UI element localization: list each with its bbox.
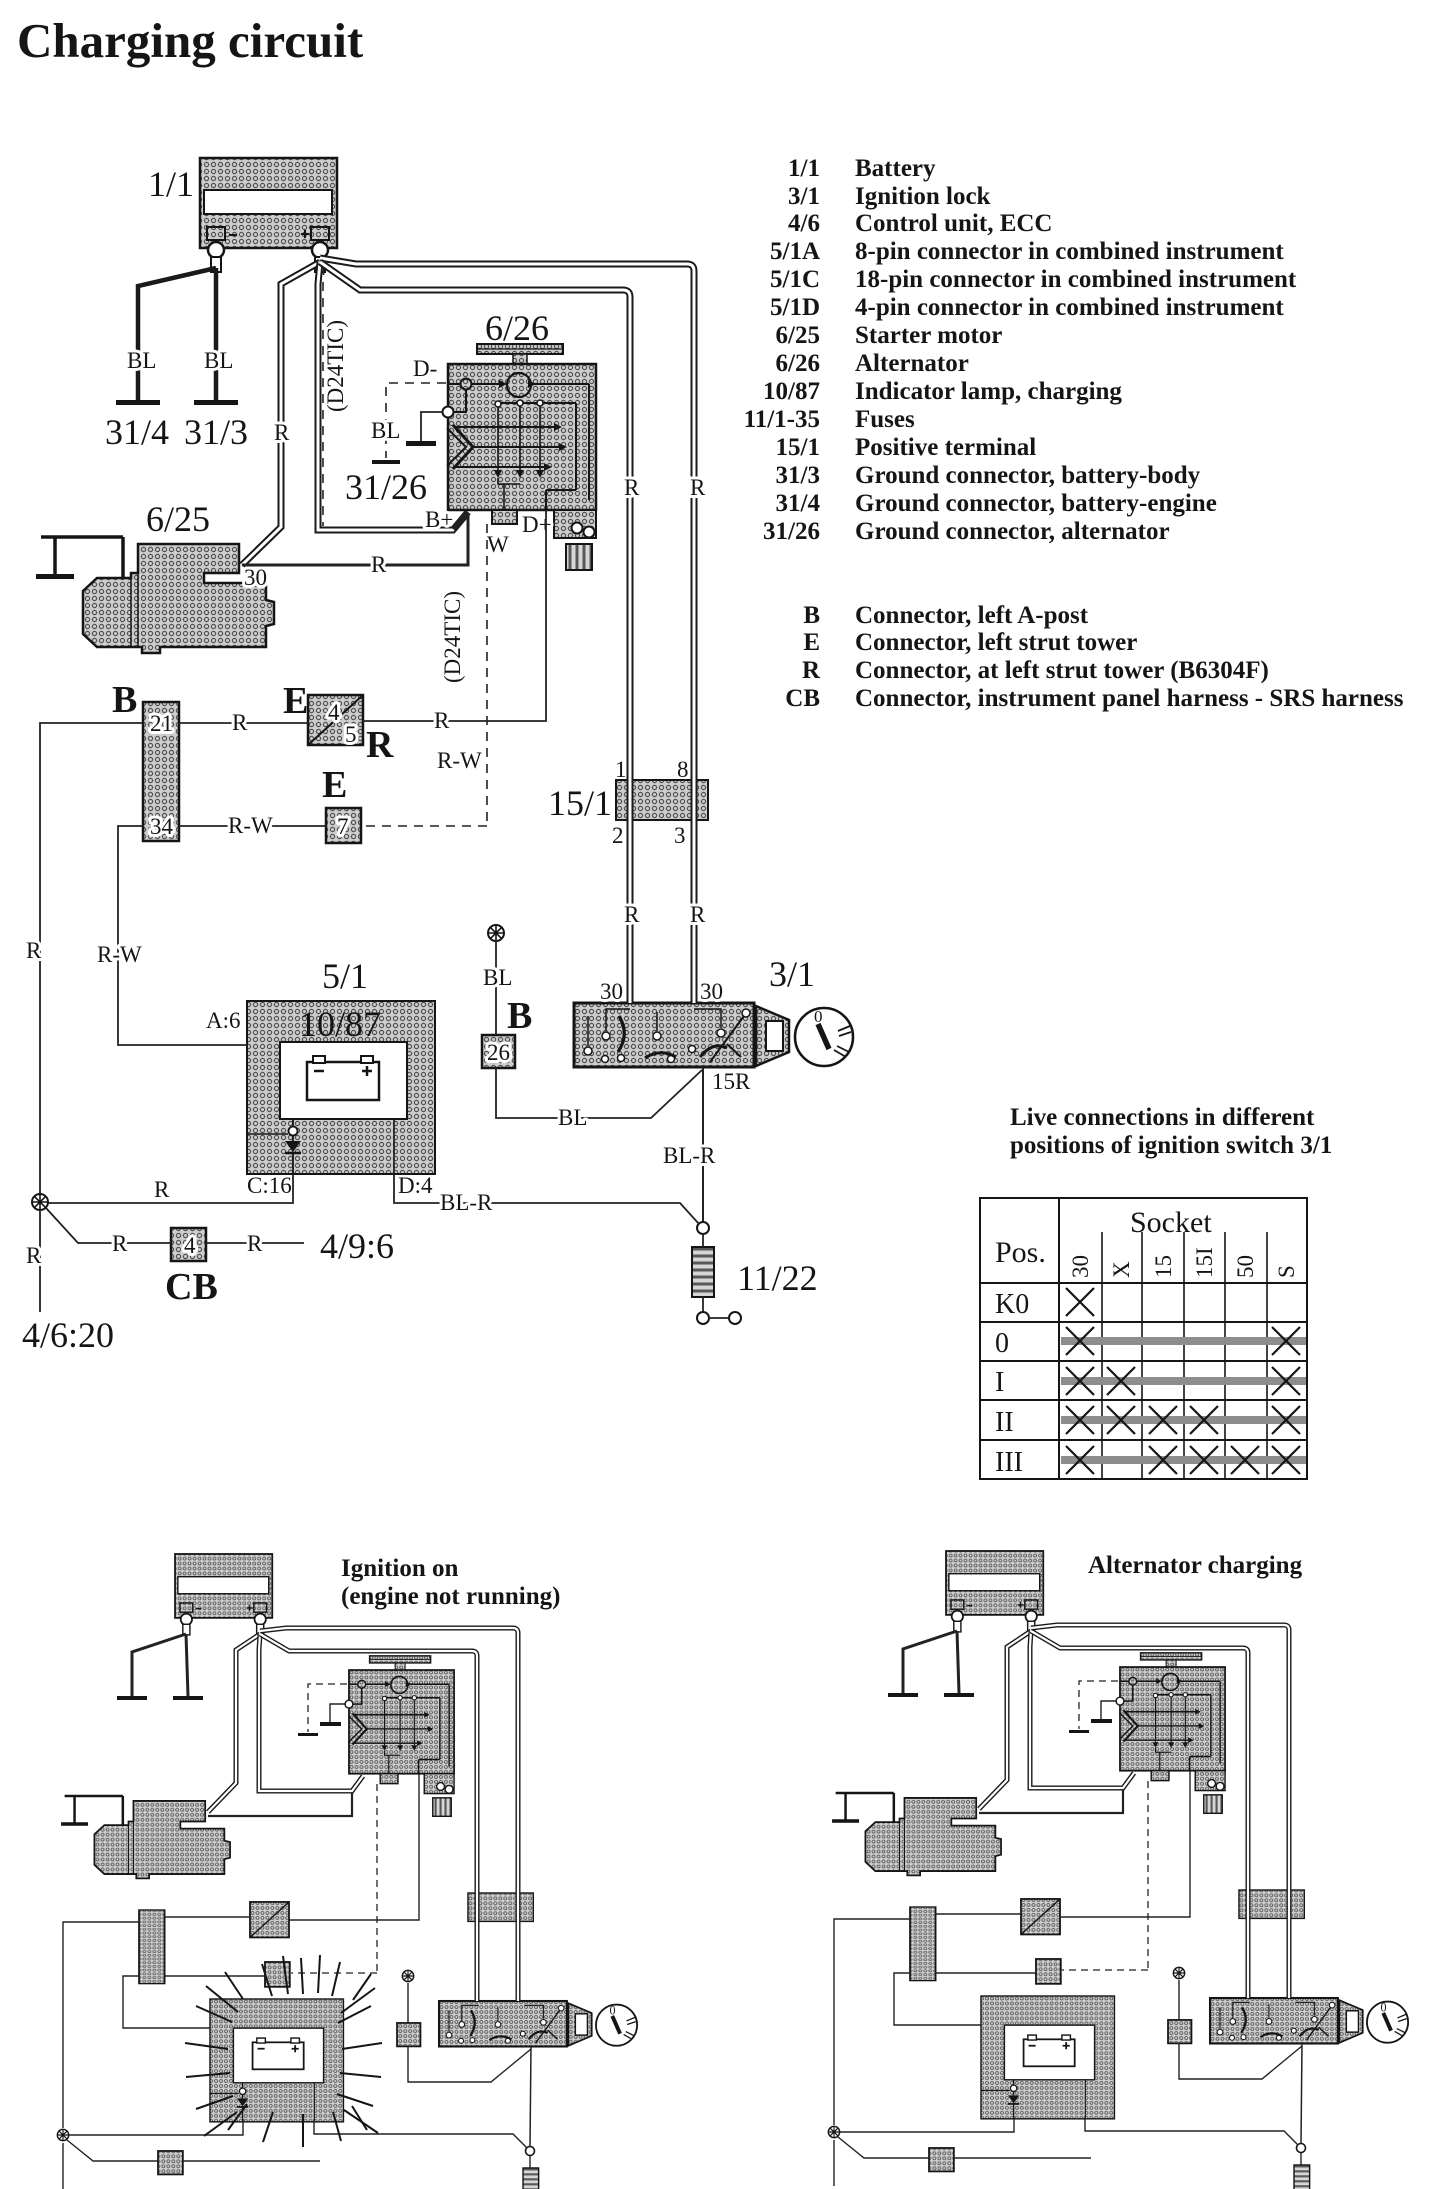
svg-text:1/1: 1/1 [148, 164, 194, 204]
svg-text:S: S [1274, 1265, 1299, 1278]
mini wire C16 to node [69, 2119, 243, 2135]
wire dashed W to connector E7 [363, 524, 487, 826]
svg-text:1/1: 1/1 [788, 155, 820, 182]
mini starter [61, 1796, 230, 1878]
ground bar BL alternator [406, 441, 436, 446]
svg-text:30: 30 [244, 565, 267, 590]
svg-text:(D24TIC): (D24TIC) [323, 320, 348, 412]
connector CB box [171, 1228, 206, 1261]
wire B21 left down to node [40, 723, 143, 1202]
mini wire starter to B+ [208, 1793, 352, 1816]
svg-text:0: 0 [814, 1007, 823, 1026]
svg-text:5/1D: 5/1D [770, 294, 820, 321]
svg-text:7: 7 [337, 814, 349, 839]
svg-text:R: R [247, 1231, 263, 1256]
ignition switch position table [980, 1198, 1307, 1479]
mini battery [175, 1554, 272, 1635]
svg-text:30: 30 [1068, 1255, 1093, 1278]
fuse 11/22 [692, 1247, 714, 1297]
svg-text:18-pin connector in combined i: 18-pin connector in combined instrument [855, 266, 1297, 293]
mini wire D+ to E45 [289, 1774, 419, 1920]
mini wire CB right [182, 2160, 320, 2162]
svg-text:BL-R: BL-R [440, 1190, 493, 1215]
svg-text:BL: BL [371, 418, 400, 443]
svg-text:3: 3 [674, 823, 686, 848]
svg-text:I: I [995, 1367, 1004, 1398]
wire BL battery negative to ground 31/4 [138, 268, 216, 400]
svg-text:(engine not running): (engine not running) [341, 1583, 560, 1610]
svg-text:R: R [112, 1231, 128, 1256]
mini dashed W to E7 [291, 1784, 377, 1973]
svg-text:BL-R: BL-R [663, 1143, 716, 1168]
connector B 26 [482, 1035, 515, 1068]
mini diagram ignition-on core [57, 1554, 637, 2189]
svg-text:E: E [322, 764, 347, 806]
wire BL battery negative to ground 31/3 [214, 268, 219, 400]
svg-text:0: 0 [995, 1328, 1009, 1359]
svg-text:Charging circuit: Charging circuit [17, 13, 364, 68]
wire battery positive to alternator B+ loop [318, 262, 468, 530]
svg-text:Indicator lamp, charging: Indicator lamp, charging [855, 378, 1122, 405]
svg-text:C:16: C:16 [247, 1173, 292, 1198]
svg-text:11/1-35: 11/1-35 [744, 406, 820, 433]
connector B (left A-post) [143, 702, 179, 841]
wire R top run to right vertical 1 [320, 258, 694, 1003]
svg-text:2: 2 [612, 823, 624, 848]
mini wire node down [62, 2143, 64, 2189]
svg-text:Connector, left strut tower: Connector, left strut tower [855, 629, 1137, 656]
svg-text:Battery: Battery [855, 155, 936, 182]
wire node down to 4/6:20 [39, 1210, 41, 1312]
svg-text:B: B [803, 602, 820, 629]
svg-text:BL: BL [127, 348, 156, 373]
mini diagram alternator charging [828, 1551, 1408, 2189]
wire BL-R instrument D:4 to node [394, 1174, 699, 1224]
mini dashed D- ground [308, 1684, 347, 1732]
svg-text:R: R [274, 420, 290, 445]
wire R instrument C:16 to node [40, 1174, 293, 1203]
svg-text:R: R [690, 902, 706, 927]
svg-text:31/3: 31/3 [776, 462, 820, 489]
mini alternator [345, 1656, 454, 1816]
svg-text:D+: D+ [522, 512, 552, 537]
mini lamp [402, 1970, 413, 1981]
svg-text:B+: B+ [425, 507, 453, 532]
svg-text:III: III [995, 1447, 1023, 1478]
mini B26 [397, 2023, 420, 2046]
svg-text:Ignition lock: Ignition lock [855, 183, 991, 210]
svg-text:4: 4 [328, 700, 340, 725]
svg-text:Connector, left A-post: Connector, left A-post [855, 602, 1089, 629]
svg-text:30: 30 [600, 979, 623, 1004]
svg-text:D-: D- [413, 356, 437, 381]
svg-text:30: 30 [700, 979, 723, 1004]
mini connector B [139, 1910, 165, 1984]
mini instrument 5/1 [210, 1999, 343, 2122]
mini wire battery negative grounds [132, 1634, 186, 1696]
svg-text:R: R [624, 475, 640, 500]
svg-text:31/4: 31/4 [105, 412, 169, 452]
alternator 6/26 [443, 344, 597, 570]
svg-text:5: 5 [345, 722, 357, 747]
wire CB to 4/9:6 [206, 1242, 304, 1244]
svg-text:3/1: 3/1 [788, 183, 820, 210]
X marks [1066, 1288, 1300, 1474]
svg-text:R: R [371, 552, 387, 577]
svg-text:R-W: R-W [97, 942, 142, 967]
mini CB [158, 2151, 183, 2174]
svg-text:15R: 15R [712, 1069, 751, 1094]
svg-text:Ground connector, battery-engi: Ground connector, battery-engine [855, 490, 1217, 517]
svg-text:6/25: 6/25 [776, 322, 820, 349]
node 4/6:20 sunburst [32, 1194, 48, 1210]
svg-text:R: R [434, 708, 450, 733]
mini fuse [523, 2168, 539, 2189]
svg-text:R: R [154, 1177, 170, 1202]
svg-text:A:6: A:6 [206, 1008, 241, 1033]
svg-text:31/3: 31/3 [184, 412, 248, 452]
svg-text:4: 4 [184, 1233, 196, 1258]
svg-text:R: R [802, 657, 821, 684]
svg-text:31/26: 31/26 [345, 467, 427, 507]
svg-text:K0: K0 [995, 1289, 1029, 1320]
svg-text:5/1C: 5/1C [770, 266, 820, 293]
svg-text:B: B [112, 679, 137, 721]
wire dashed D24TIC battery positive [323, 266, 324, 526]
mini wire lamp to B26 [407, 1983, 409, 2023]
svg-text:CB: CB [785, 685, 820, 712]
svg-text:E: E [283, 680, 308, 722]
legend component list [744, 155, 1404, 712]
fuse bottom circles [697, 1312, 709, 1324]
positive terminal 15/1 [616, 780, 708, 820]
ignition switch 3/1 [574, 1003, 853, 1067]
wire B+ stub [453, 512, 468, 529]
svg-text:R: R [26, 1243, 42, 1268]
mini wire B34 to A:6 [123, 1976, 210, 2028]
svg-text:W: W [487, 532, 509, 557]
mini 15/1 [468, 1893, 533, 1921]
svg-text:15/1: 15/1 [776, 434, 820, 461]
svg-text:R: R [366, 724, 394, 766]
connector E 7 [326, 808, 361, 843]
svg-text:8: 8 [677, 757, 689, 782]
svg-text:D:4: D:4 [398, 1173, 433, 1198]
sunburst rays around lit lamp box [185, 1955, 382, 2147]
svg-text:1: 1 [615, 757, 627, 782]
svg-text:15: 15 [1151, 1255, 1176, 1278]
wire BL lamp to B26 [495, 941, 497, 1035]
svg-text:II: II [995, 1407, 1014, 1438]
svg-text:Starter motor: Starter motor [855, 322, 1002, 349]
svg-text:8-pin connector in combined in: 8-pin connector in combined instrument [855, 238, 1284, 265]
ground connector 31/3 [194, 400, 238, 405]
svg-text:Positive terminal: Positive terminal [855, 434, 1036, 461]
connector E 4/5 [308, 695, 363, 745]
wire BL-R 15R down to node [702, 1067, 704, 1222]
svg-text:11/22: 11/22 [737, 1258, 818, 1298]
mini wire loop to B+ [259, 1634, 363, 1791]
mini wire BL-R horizontal [314, 2119, 527, 2148]
svg-text:Live connections in different: Live connections in different [1010, 1104, 1315, 1131]
svg-text:5/1: 5/1 [322, 956, 368, 996]
wire R battery positive to starter 30 [242, 262, 320, 565]
svg-text:21: 21 [150, 711, 173, 736]
svg-text:Connector, at left strut tower: Connector, at left strut tower (B6304F) [855, 657, 1269, 684]
battery 1/1 [200, 158, 337, 272]
svg-text:X: X [1109, 1261, 1134, 1278]
svg-text:positions of ignition switch 3: positions of ignition switch 3/1 [1010, 1132, 1332, 1159]
mini wire top run 1 [260, 1628, 518, 2001]
mini BL ground [330, 1704, 346, 1722]
svg-text:Fuses: Fuses [855, 406, 915, 433]
svg-text:Pos.: Pos. [995, 1236, 1046, 1269]
svg-text:R: R [232, 710, 248, 735]
wire R-W B34 to instrument A:6 [118, 826, 247, 1045]
wire node to CB [46, 1208, 171, 1243]
svg-text:34: 34 [150, 814, 174, 839]
ground 31/26 dashed bar [372, 460, 400, 464]
wire BL B26 to ignition switch [496, 1068, 702, 1118]
svg-text:26: 26 [487, 1040, 510, 1065]
svg-text:31/4: 31/4 [776, 490, 821, 517]
svg-text:15I: 15I [1192, 1247, 1217, 1278]
mini wire 15R down [530, 2046, 531, 2146]
mini node [57, 2129, 68, 2140]
svg-text:R: R [624, 902, 640, 927]
mini wire B26 to switch [408, 2046, 531, 2082]
svg-text:Alternator: Alternator [855, 350, 969, 377]
svg-text:6/25: 6/25 [146, 499, 210, 539]
svg-text:E: E [803, 629, 820, 656]
svg-text:6/26: 6/26 [776, 350, 820, 377]
wire BL alternator to ground [421, 412, 443, 441]
svg-text:31/26: 31/26 [763, 518, 820, 545]
starter motor 6/25 [36, 537, 274, 653]
mini wire node to CB [67, 2140, 158, 2161]
wire R E4/5 to B21 [179, 722, 308, 724]
node circle above fuse [697, 1222, 709, 1234]
mini ignition switch [439, 2001, 637, 2046]
gray live bands [1061, 1337, 1306, 1345]
wire R-W B34 to E7 [179, 825, 326, 827]
svg-text:R-W: R-W [228, 813, 273, 838]
svg-text:6/26: 6/26 [485, 308, 549, 348]
svg-text:R-W: R-W [437, 748, 482, 773]
wire D+ down to R connector E4/5 [363, 510, 546, 721]
svg-text:R: R [26, 938, 42, 963]
svg-text:Control unit, ECC: Control unit, ECC [855, 210, 1053, 237]
svg-text:BL: BL [204, 348, 233, 373]
svg-text:3/1: 3/1 [769, 954, 815, 994]
svg-text:R: R [690, 475, 706, 500]
svg-text:50: 50 [1233, 1255, 1258, 1278]
mini wire B34 to E7 [165, 1975, 265, 1977]
combined instrument 5/1 with indicator lamp 10/87 [247, 1001, 435, 1174]
wire dashed D- to ground 31/26 [386, 383, 446, 458]
svg-text:10/87: 10/87 [299, 1004, 381, 1044]
mini connector E45 [250, 1902, 289, 1938]
ground connector 31/4 [116, 400, 160, 405]
wire R starter 30 to alternator B+ [242, 514, 468, 565]
svg-text:10/87: 10/87 [763, 378, 820, 405]
svg-text:BL: BL [483, 965, 512, 990]
svg-text:Ground connector, alternator: Ground connector, alternator [855, 518, 1170, 545]
svg-text:4/6:20: 4/6:20 [22, 1315, 114, 1355]
svg-text:4/6: 4/6 [788, 210, 820, 237]
wire R top run to right vertical 2 [320, 262, 630, 1003]
mini wire top run 2 [260, 1634, 477, 2001]
svg-text:4-pin connector in combined in: 4-pin connector in combined instrument [855, 294, 1284, 321]
svg-text:Alternator charging: Alternator charging [1088, 1552, 1303, 1579]
svg-text:5/1A: 5/1A [770, 238, 820, 265]
mini wire B21 to node [63, 1922, 139, 2128]
svg-text:15/1: 15/1 [548, 783, 612, 823]
lamp symbol above B26 [488, 925, 504, 941]
mini wire R to starter [208, 1634, 260, 1812]
svg-text:CB: CB [165, 1266, 218, 1308]
svg-text:(D24TIC): (D24TIC) [440, 591, 465, 683]
mini connector E7 [265, 1962, 290, 1987]
svg-text:B: B [507, 995, 532, 1037]
svg-text:4/9:6: 4/9:6 [320, 1226, 394, 1266]
wire node to fuse 11/22 [702, 1234, 704, 1312]
svg-text:Connector, instrument panel ha: Connector, instrument panel harness - SR… [855, 685, 1404, 712]
svg-text:Ignition on: Ignition on [341, 1555, 459, 1582]
mini wire E45 to B21 [165, 1916, 250, 1918]
svg-text:BL: BL [558, 1105, 587, 1130]
svg-text:Ground connector, battery-body: Ground connector, battery-body [855, 462, 1201, 489]
svg-text:Socket: Socket [1130, 1206, 1212, 1239]
